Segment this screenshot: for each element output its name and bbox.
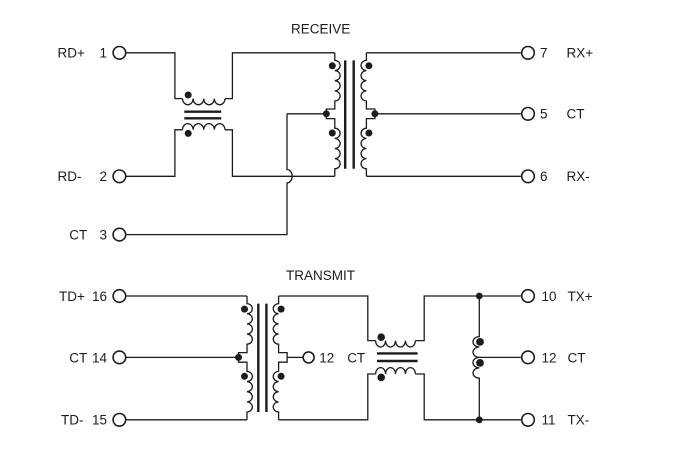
pin 10 (TX+)	[522, 290, 535, 303]
transformer T1 core bar 1	[344, 60, 346, 168]
svg-text:RD-: RD-	[58, 169, 82, 184]
wire choke L1 bottom to transformer T1 primary bottom	[225, 130, 335, 177]
wire T1 primary center tap toward pin 3	[287, 113, 326, 115]
svg-text:RX-: RX-	[567, 169, 590, 184]
polarity dot T2 primary top	[241, 306, 248, 313]
svg-text:TRANSMIT: TRANSMIT	[286, 268, 355, 283]
choke L2 core bar 1	[377, 352, 418, 354]
svg-text:6: 6	[540, 169, 548, 184]
polarity dot T1 primary top	[329, 62, 336, 69]
pin 6 (RX-)	[522, 170, 535, 183]
svg-text:RD+: RD+	[58, 46, 85, 61]
polarity dot T1 secondary bottom	[365, 130, 372, 137]
choke L2 top winding	[376, 341, 416, 347]
junction dot T1 secondary CT	[371, 110, 378, 117]
transformer T1 secondary winding (right, pins 7-5-6 side)	[361, 53, 375, 177]
autotransformer L3 winding upper	[473, 296, 479, 357]
svg-text:3: 3	[99, 228, 107, 243]
wire T2 secondary top to choke L2 top winding	[279, 296, 376, 341]
polarity dot L3 upper	[476, 338, 484, 346]
svg-text:15: 15	[92, 413, 107, 428]
wire pin15 to T2 primary bottom	[127, 419, 248, 421]
wire L3 center tap to pin 12 right	[479, 356, 521, 358]
svg-text:CT: CT	[568, 350, 586, 365]
wire pin1 to choke L1 top winding	[127, 53, 183, 99]
choke L2 core bar 2	[377, 360, 418, 362]
polarity dot L3 lower	[476, 359, 484, 367]
wire T1 secondary bottom to pin 6	[366, 175, 521, 177]
wire T1 secondary center tap to pin 5	[375, 113, 521, 115]
junction dot T1 primary CT	[323, 110, 330, 117]
svg-text:7: 7	[540, 46, 548, 61]
svg-text:TX+: TX+	[568, 289, 593, 304]
svg-text:12: 12	[319, 350, 334, 365]
transformer T1 core bar 2	[353, 60, 355, 168]
svg-text:16: 16	[92, 289, 107, 304]
pin 16 (TD+)	[113, 290, 126, 303]
wire T2 secondary CT to pin 12 mid	[287, 356, 303, 358]
pin 12 (CT right)	[522, 351, 535, 364]
wire pin14 to T2 primary center tap	[127, 356, 239, 358]
transformer T2 primary winding (left, pins 16-14-15 side)	[239, 296, 253, 420]
svg-text:RECEIVE: RECEIVE	[291, 21, 350, 36]
pin 2 (RD-)	[113, 170, 126, 183]
pin 14 (CT)	[113, 351, 126, 364]
polarity dot T2 secondary bottom	[278, 373, 285, 380]
choke L1 bottom winding	[183, 124, 225, 130]
pin 7 (RX+)	[522, 47, 535, 60]
autotransformer L3 winding lower	[473, 357, 479, 419]
svg-text:5: 5	[540, 107, 548, 122]
transformer T2 secondary winding (right)	[273, 296, 287, 420]
svg-text:TX-: TX-	[568, 413, 590, 428]
transformer T1 primary winding (left, pins 1-2 side)	[326, 53, 340, 177]
choke L2 bottom winding	[376, 368, 416, 374]
wire T2 secondary bottom to choke L2 bottom winding	[279, 374, 376, 420]
polarity dot T2 secondary top	[278, 306, 285, 313]
transformer T2 core bar 1	[257, 304, 259, 412]
polarity dot T1 primary bottom	[329, 130, 336, 137]
wire pin2 to choke L1 bottom winding	[127, 130, 183, 177]
choke L1 core bar 1	[184, 110, 221, 112]
choke L1 core bar 2	[184, 117, 221, 119]
wire T1 secondary top to pin 7	[366, 52, 521, 54]
polarity dot L1 bottom	[185, 130, 192, 137]
svg-text:14: 14	[92, 350, 108, 365]
polarity dot L1 top	[185, 92, 192, 99]
pin 3 (CT)	[113, 228, 126, 241]
svg-text:CT: CT	[347, 350, 365, 365]
svg-text:12: 12	[542, 350, 557, 365]
svg-text:10: 10	[542, 289, 557, 304]
svg-text:TD-: TD-	[61, 413, 84, 428]
wire pin16 to T2 primary top	[127, 295, 248, 297]
pin 11 (TX-)	[522, 414, 535, 427]
svg-text:TD+: TD+	[59, 289, 85, 304]
pin 15 (TD-)	[113, 414, 126, 427]
pin 12 (CT mid)	[303, 352, 314, 363]
svg-text:CT: CT	[567, 107, 585, 122]
wire choke L1 top to transformer T1 primary top	[225, 53, 335, 99]
junction dot T2 primary CT	[235, 354, 242, 361]
pin 1 (RD+)	[113, 47, 126, 60]
transformer T2 core bar 2	[265, 304, 267, 412]
pin 5 (CT)	[522, 108, 535, 121]
wire choke L2 bottom to pin 11 rail	[415, 374, 521, 420]
polarity dot L2 top	[377, 333, 385, 341]
wire CT drop with hop over RD- wire	[127, 114, 293, 235]
svg-text:11: 11	[542, 413, 556, 428]
wire choke L2 top to pin 10 rail	[415, 296, 521, 341]
choke L1 top winding	[183, 99, 225, 105]
svg-text:1: 1	[99, 46, 107, 61]
svg-text:CT: CT	[69, 228, 87, 243]
junction dot TX- rail	[476, 416, 483, 423]
svg-text:CT: CT	[69, 350, 87, 365]
polarity dot L2 bottom	[377, 374, 385, 382]
svg-text:RX+: RX+	[567, 46, 594, 61]
junction dot TX+ rail	[476, 293, 483, 300]
svg-text:2: 2	[99, 169, 107, 184]
polarity dot T1 secondary top	[365, 62, 372, 69]
polarity dot T2 primary bottom	[241, 373, 248, 380]
